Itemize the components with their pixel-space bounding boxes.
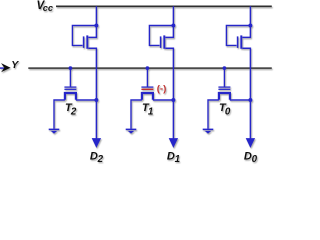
transistor T1 charged floating gate bar (red) bbox=[141, 88, 153, 90]
load transistor L1 gate loop wire bbox=[149, 26, 173, 46]
label D0 bbox=[244, 150, 258, 165]
load transistor L2 gate plate bbox=[83, 36, 85, 48]
Vcc rail bbox=[56, 5, 272, 7]
load transistor L2 drain wire bbox=[88, 6, 96, 37]
transistor T0 channel bbox=[219, 93, 230, 100]
label T2 bbox=[65, 102, 77, 117]
load transistor L0 channel bar bbox=[240, 35, 242, 48]
Y word line bbox=[28, 67, 271, 69]
svg-text:0: 0 bbox=[252, 154, 258, 165]
load transistor L2 gate loop wire bbox=[72, 26, 96, 46]
transistor T2 control gate bar bbox=[64, 86, 76, 88]
transistor T0 control gate bar bbox=[218, 86, 230, 88]
transistor T1 gate wire bbox=[146, 68, 148, 86]
transistor T2 channel bbox=[65, 93, 76, 100]
T0 drain wire bbox=[230, 99, 251, 101]
T1 source wire to ground bbox=[131, 100, 142, 129]
label T0 bbox=[219, 102, 231, 117]
svg-text:0: 0 bbox=[225, 106, 231, 117]
output arrow D1 bbox=[169, 138, 178, 148]
Vcc label bbox=[37, 0, 54, 13]
T1 drain wire bbox=[153, 99, 174, 101]
Y input arrow bbox=[0, 63, 11, 72]
svg-text:1: 1 bbox=[148, 106, 153, 117]
transistor T0 gate wire bbox=[223, 68, 225, 86]
label D2 bbox=[90, 150, 104, 165]
load transistor L0 gate loop wire bbox=[226, 26, 250, 46]
load L0 source wire / bit line D0 bbox=[242, 48, 250, 139]
node: T2 drain on bit line bbox=[94, 98, 98, 102]
node: T1 drain on bit line bbox=[171, 98, 175, 102]
svg-text:1: 1 bbox=[175, 154, 180, 165]
ground (T1 source) bbox=[126, 129, 137, 133]
T2 source wire to ground bbox=[54, 100, 65, 129]
load L2 source wire / bit line D2 bbox=[88, 48, 96, 139]
output arrow D0 bbox=[246, 138, 255, 148]
node: T0 gate on Y line bbox=[223, 66, 227, 70]
T2 drain wire bbox=[76, 99, 97, 101]
load transistor L0 drain wire bbox=[242, 6, 250, 37]
node: T1 gate on Y line bbox=[146, 66, 150, 70]
svg-text:(-): (-) bbox=[157, 84, 167, 95]
transistor T2 floating gate bar bbox=[64, 88, 76, 90]
svg-text:2: 2 bbox=[70, 106, 77, 117]
load transistor L2 channel bar bbox=[86, 35, 88, 48]
load transistor L1 gate plate bbox=[160, 36, 162, 48]
transistor T2 gate wire bbox=[69, 68, 71, 86]
node: T0 drain on bit line bbox=[248, 98, 252, 102]
node: load L0 gate-drain junction bbox=[248, 24, 252, 28]
load transistor L1 drain wire bbox=[165, 6, 173, 37]
ground (T0 source) bbox=[203, 129, 214, 133]
load transistor L0 gate plate bbox=[237, 36, 239, 48]
node: T2 gate on Y line bbox=[69, 66, 73, 70]
T0 source wire to ground bbox=[208, 100, 219, 129]
ground (T2 source) bbox=[49, 129, 60, 133]
svg-text:cc: cc bbox=[43, 3, 54, 13]
load L1 source wire / bit line D1 bbox=[165, 48, 173, 139]
label T1 bbox=[142, 102, 153, 117]
svg-text:Y: Y bbox=[11, 59, 19, 71]
load transistor L1 channel bar bbox=[163, 35, 165, 48]
node: load L1 gate-drain junction bbox=[171, 24, 175, 28]
transistor T0 floating gate bar bbox=[218, 88, 230, 90]
node: load L2 gate-drain junction bbox=[94, 24, 98, 28]
label D1 bbox=[167, 150, 180, 165]
transistor T1 channel bbox=[142, 93, 153, 100]
output arrow D2 bbox=[92, 138, 101, 148]
svg-text:2: 2 bbox=[97, 154, 104, 165]
transistor T1 control gate bar bbox=[141, 86, 153, 88]
